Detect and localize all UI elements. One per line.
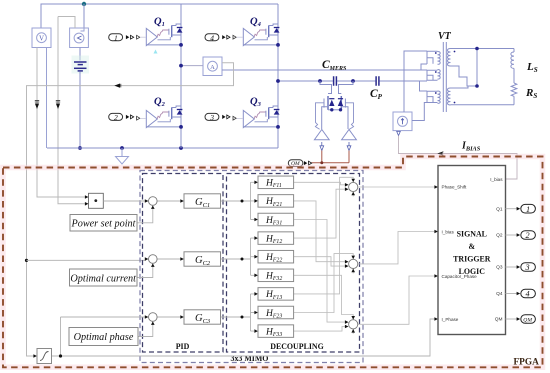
wire secondary A top lead bbox=[451, 48, 515, 50]
current source symbol bbox=[78, 36, 82, 40]
block H_F12 bbox=[258, 232, 294, 245]
wire source drop bbox=[83, 4, 85, 28]
transformer core bbox=[443, 42, 446, 112]
block H_F23 bbox=[258, 306, 294, 319]
block H_F13 bbox=[258, 288, 294, 301]
input arrow probe bbox=[397, 131, 401, 135]
wire battery to bottom rail bbox=[79, 72, 81, 148]
wire multiplier output to summer 1 bbox=[103, 200, 145, 202]
wire feedback optimal current bbox=[137, 267, 153, 278]
arrow into multiplier in2 bbox=[85, 202, 89, 206]
block H_F22 bbox=[258, 250, 294, 263]
wire H_F22 to summer c2 bbox=[294, 257, 345, 266]
SW2 gate bar bbox=[344, 99, 346, 108]
multiplier dot bbox=[94, 199, 97, 202]
wire G_C1 output bbox=[221, 200, 251, 202]
arrow down on V measurement wire bbox=[35, 101, 39, 103]
node bottom rail left bbox=[120, 146, 124, 150]
wire output Q1 bbox=[506, 208, 517, 210]
node Q4 source-rail junction bbox=[276, 43, 280, 47]
svg-text:Phase_Shift: Phase_Shift bbox=[442, 184, 467, 189]
wire H_F23 to summer c2 bbox=[294, 254, 354, 313]
block Power set point bbox=[70, 215, 137, 232]
wire node MERS-right to switch drain bbox=[339, 81, 354, 94]
wire summer c1 feedback stub bbox=[352, 192, 354, 197]
svg-text:Power set point: Power set point bbox=[71, 219, 137, 230]
arrows into H row 1..9 bbox=[254, 181, 258, 185]
MERS gate driver right bbox=[342, 130, 357, 140]
svg-text:Q1: Q1 bbox=[496, 206, 503, 212]
block Optimal phase bbox=[69, 328, 138, 346]
oval output 1 bbox=[521, 204, 536, 213]
wire current sense to summer 2 bbox=[27, 259, 147, 261]
arrows oval2 to Q2 driver bbox=[126, 115, 134, 119]
arrow feedback S1 bbox=[151, 205, 155, 209]
voltmeter V bbox=[32, 28, 51, 48]
wire top DC rail bbox=[41, 3, 279, 5]
wire V measurement down to multiplier bbox=[37, 48, 85, 198]
svg-text:Q3: Q3 bbox=[496, 265, 503, 271]
wire feedback power set point bbox=[137, 209, 153, 223]
wire bus group 3 bbox=[251, 294, 255, 331]
wire H_F12 to summer c1 bbox=[294, 189, 345, 238]
wire probe to transformer primary 1 bbox=[404, 51, 427, 112]
diode SW1 body bbox=[329, 98, 334, 100]
wire bus group 2 bbox=[251, 238, 255, 275]
node ammeter tap bbox=[179, 64, 183, 68]
svg-text:SIGNAL: SIGNAL bbox=[457, 230, 487, 239]
wire bus group 1 bbox=[251, 182, 255, 219]
wire secondary B bottom lead bbox=[451, 104, 515, 106]
svg-text:3: 3 bbox=[525, 263, 530, 272]
wire ammeter tap bbox=[181, 65, 203, 67]
wire secondary A bottom lead bbox=[451, 66, 478, 86]
summer c1 bbox=[349, 182, 358, 191]
svg-text:FPGA: FPGA bbox=[514, 358, 540, 368]
svg-text:TRIGGER: TRIGGER bbox=[453, 255, 491, 264]
svg-text:I_bias: I_bias bbox=[442, 229, 455, 234]
wire secondary center tap bbox=[476, 49, 478, 87]
svg-text:3: 3 bbox=[209, 113, 214, 122]
svg-text:Q2: Q2 bbox=[496, 233, 503, 239]
node battery-rail bbox=[78, 146, 82, 150]
block H_F33 bbox=[258, 325, 294, 338]
wire I_BIAS control (from FPGA to probe) bbox=[399, 136, 518, 179]
wire summer c2 to I_bias bbox=[358, 232, 435, 264]
arrow feedback S2 bbox=[151, 263, 155, 267]
transformer primary winding 3 bbox=[420, 81, 438, 103]
arrows into summer c1 bbox=[345, 183, 349, 187]
transistor Q3 with gate driver bbox=[243, 106, 279, 128]
transformer secondary winding A bbox=[448, 49, 451, 67]
wire summer2 to G_C2 bbox=[157, 258, 180, 260]
arrows oval1 to Q1 driver bbox=[126, 35, 134, 39]
wire summer c1 to Phase_Shift bbox=[358, 186, 435, 188]
block G_C1 bbox=[184, 194, 221, 208]
wire QM gate feed (red) bbox=[312, 151, 350, 163]
svg-text:I_Phase: I_Phase bbox=[442, 317, 459, 322]
node G_C3 output bbox=[241, 316, 244, 319]
node Q1 source-rail junction bbox=[179, 43, 183, 47]
wire V-meter drop bbox=[40, 4, 42, 28]
wire node MERS-left to switch drain bbox=[320, 81, 332, 94]
MOSFET SW2 channel bbox=[340, 96, 342, 110]
arrow into Phase_Shift bbox=[434, 185, 438, 189]
wire H_F31 to summer c3 bbox=[294, 220, 345, 323]
gate signal oval 3 bbox=[205, 113, 219, 120]
svg-text:3x3 MIMO: 3x3 MIMO bbox=[231, 354, 269, 363]
arrow into G_C1 bbox=[180, 199, 184, 203]
node Q2 source-rail junction bbox=[179, 125, 183, 129]
block sigmoid (phase detector) bbox=[37, 349, 52, 364]
oval output 4 bbox=[521, 289, 536, 298]
MERS gate driver left bbox=[314, 130, 329, 140]
summer S2 bbox=[149, 255, 158, 264]
svg-text:2: 2 bbox=[526, 231, 530, 240]
transistor Q2 with gate driver bbox=[146, 106, 182, 128]
svg-text:1: 1 bbox=[114, 33, 118, 42]
MERS bidirectional switch pair bbox=[315, 81, 353, 129]
arrow into I_bias bbox=[434, 230, 438, 234]
svg-text:V: V bbox=[39, 35, 44, 43]
wire summer c2 feedback stub bbox=[352, 269, 354, 274]
svg-text:DECOUPLING: DECOUPLING bbox=[270, 342, 324, 351]
SW1 gate bar bbox=[323, 99, 325, 108]
wire H_F13 to summer c1 bbox=[294, 177, 354, 294]
node bottom rail mid bbox=[179, 146, 183, 150]
wire H_F33 to summer c3 bbox=[294, 327, 345, 332]
svg-text:A: A bbox=[210, 64, 215, 71]
arrow into summer S2 bbox=[145, 257, 149, 261]
arrow into summer S1 bbox=[145, 199, 149, 203]
DECOUPLING dashed box bbox=[227, 174, 360, 353]
diode SW2 body bbox=[338, 98, 343, 100]
wire summer c3 to Capacitor_Phase bbox=[358, 276, 435, 324]
node G_C2 output bbox=[241, 258, 244, 261]
arrow into summer S3 bbox=[145, 315, 149, 319]
oval output 2 bbox=[521, 231, 536, 240]
inductor L_S bbox=[511, 52, 514, 68]
node MERS left bbox=[318, 79, 322, 83]
svg-text:QM: QM bbox=[495, 317, 503, 323]
svg-text:QM: QM bbox=[523, 318, 532, 324]
block G_C2 bbox=[184, 252, 221, 266]
summer c2 bbox=[349, 259, 358, 268]
multiplier block bbox=[89, 193, 104, 208]
wire H_F11 to summer c1 bbox=[294, 182, 345, 185]
wire phase input to summer 3 bbox=[61, 317, 145, 356]
arrow down on source measurement wire bbox=[56, 101, 60, 103]
arrows oval4 to Q4 driver bbox=[222, 35, 230, 39]
transistor Q4 with gate driver bbox=[243, 24, 279, 46]
arrows into summer c2 bbox=[345, 260, 349, 264]
wire load loop bottom bbox=[513, 96, 515, 105]
node top rail junction bbox=[82, 2, 86, 6]
input arrow MERS driver right bbox=[347, 142, 351, 151]
svg-text:PID: PID bbox=[176, 342, 190, 351]
wire output Q3 bbox=[506, 266, 517, 268]
wire sigmoid output / I_Phase bbox=[52, 319, 435, 356]
block Optimal current bbox=[70, 269, 138, 286]
arrow into Capacitor_Phase bbox=[434, 274, 438, 278]
summer c3 bbox=[349, 320, 358, 329]
block H_F31 bbox=[258, 213, 294, 226]
wire SW1 gate lead bbox=[315, 103, 324, 129]
svg-text:Capacitor_Phase: Capacitor_Phase bbox=[442, 274, 478, 279]
capacitor C_P bbox=[376, 76, 379, 85]
ground bbox=[116, 148, 129, 164]
gate signal oval 1 bbox=[109, 34, 123, 41]
transformer primary winding 1 bbox=[421, 51, 438, 70]
svg-text:Optimal current: Optimal current bbox=[70, 274, 137, 285]
wire H_F32 to summer c3 bbox=[294, 275, 354, 316]
arrows into summer c3 bbox=[345, 320, 349, 324]
svg-text:I_bias: I_bias bbox=[490, 177, 503, 182]
oval QM (MERS gate) bbox=[288, 160, 303, 167]
battery highlight artifact bbox=[72, 56, 90, 74]
capacitor C_MERS bbox=[334, 76, 337, 85]
ammeter A bbox=[203, 57, 222, 76]
node G_C1 output bbox=[241, 200, 244, 203]
oval output 3 bbox=[521, 263, 536, 272]
input arrow MERS driver left bbox=[320, 142, 324, 151]
transformer secondary winding B bbox=[448, 88, 451, 105]
arrows oval3 to Q3 driver bbox=[222, 115, 230, 119]
node QM gate wire bbox=[320, 161, 323, 164]
node sigmoid output bbox=[59, 354, 62, 357]
svg-text:&: & bbox=[469, 242, 476, 251]
3x3 MIMO dashed box bbox=[140, 171, 363, 363]
arrow into G_C3 bbox=[180, 315, 184, 319]
arrow into I_Phase bbox=[434, 317, 438, 321]
wire right bridge rail bbox=[277, 4, 279, 148]
arrow into G_C2 bbox=[180, 257, 184, 261]
node n2 left bbox=[276, 79, 280, 83]
wire secondary B top lead bbox=[451, 86, 478, 88]
block H_F11 bbox=[258, 176, 294, 189]
arrow into multiplier in1 bbox=[85, 195, 89, 199]
node secondary top bbox=[475, 47, 479, 51]
battery B1 bbox=[74, 62, 87, 71]
block G_C3 bbox=[184, 310, 221, 324]
svg-text:1: 1 bbox=[526, 205, 530, 214]
wire SW2 gate lead bbox=[345, 103, 353, 129]
wire output Q2 bbox=[506, 234, 517, 236]
wire SW2 source out bbox=[341, 107, 348, 129]
resistor R_S bbox=[511, 83, 517, 96]
svg-text:Q4: Q4 bbox=[496, 291, 503, 297]
wire bottom rail bbox=[47, 147, 278, 149]
wire ammeter current-sense loop (gray) bbox=[27, 63, 234, 356]
wire summer1 to G_C1 bbox=[157, 200, 180, 202]
node SW source 2 bbox=[339, 108, 342, 111]
PID dashed box bbox=[143, 174, 224, 353]
wire G_C2 output bbox=[221, 258, 251, 260]
wire V-meter right lead to bottom rail bbox=[46, 48, 48, 149]
MOSFET SW1 channel bbox=[327, 96, 329, 110]
wire summer3 to G_C3 bbox=[157, 316, 180, 318]
svg-text:VT: VT bbox=[438, 31, 452, 42]
wire G_C3 output bbox=[221, 316, 251, 318]
gate signal oval 4 bbox=[205, 34, 219, 41]
FPGA dashed border (with pink halo) bbox=[3, 157, 543, 368]
arrow I_BIAS wire bbox=[437, 152, 442, 156]
node SW source 1 bbox=[330, 108, 333, 111]
svg-text:4: 4 bbox=[526, 290, 530, 299]
wire load loop top bbox=[513, 49, 515, 53]
node MERS right bbox=[351, 79, 355, 83]
transformer primary winding 2 bbox=[427, 70, 438, 81]
wire output Q4 bbox=[506, 293, 517, 295]
node Q3 source-rail junction bbox=[276, 125, 280, 129]
node secondary tap bbox=[475, 84, 479, 88]
summer S3 bbox=[149, 313, 158, 322]
svg-text:4: 4 bbox=[210, 33, 214, 42]
transistor Q1 with gate driver bbox=[146, 24, 182, 46]
wire summer c3 feedback stub bbox=[352, 329, 354, 334]
block SIGNAL & TRIGGER LOGIC bbox=[438, 166, 506, 335]
wire left bridge rail bbox=[180, 4, 182, 148]
wire H_F21 to summer c2 bbox=[294, 201, 345, 262]
arrow feedback S3 bbox=[151, 321, 155, 325]
arrows QM oval to wire bbox=[304, 161, 312, 165]
wire probe to transformer primary 3 bbox=[412, 103, 427, 121]
wire source-current measurement down to multiplier bbox=[58, 17, 85, 204]
svg-text:Optimal phase: Optimal phase bbox=[74, 332, 134, 343]
block H_F32 bbox=[258, 269, 294, 282]
summer S1 bbox=[149, 197, 158, 206]
arrow left on current-sense wire bbox=[114, 84, 120, 88]
wire SW1 source out bbox=[322, 107, 328, 129]
current source bbox=[70, 28, 89, 48]
wire output QM bbox=[506, 318, 517, 320]
wire source to battery bbox=[79, 48, 81, 61]
wire SW source bar bbox=[328, 109, 341, 111]
wire MERS capacitor net (node n2) bbox=[278, 80, 427, 82]
wire ammeter output to transformer (node n1) bbox=[222, 69, 427, 71]
polarity dots bbox=[435, 52, 437, 54]
wire sense loop over source (gray) bbox=[58, 17, 75, 29]
oval output QM bbox=[521, 315, 536, 324]
current probe T1 bbox=[393, 112, 412, 131]
artifact speck bbox=[154, 50, 158, 54]
gate signal oval 2 bbox=[109, 113, 123, 120]
svg-text:2: 2 bbox=[114, 113, 118, 122]
wire feedback optimal phase bbox=[138, 325, 153, 337]
node current sense to row2 bbox=[25, 259, 28, 262]
wire load loop mid bbox=[513, 68, 515, 83]
block H_F21 bbox=[258, 195, 294, 208]
arrow into sigmoid bbox=[33, 354, 37, 358]
